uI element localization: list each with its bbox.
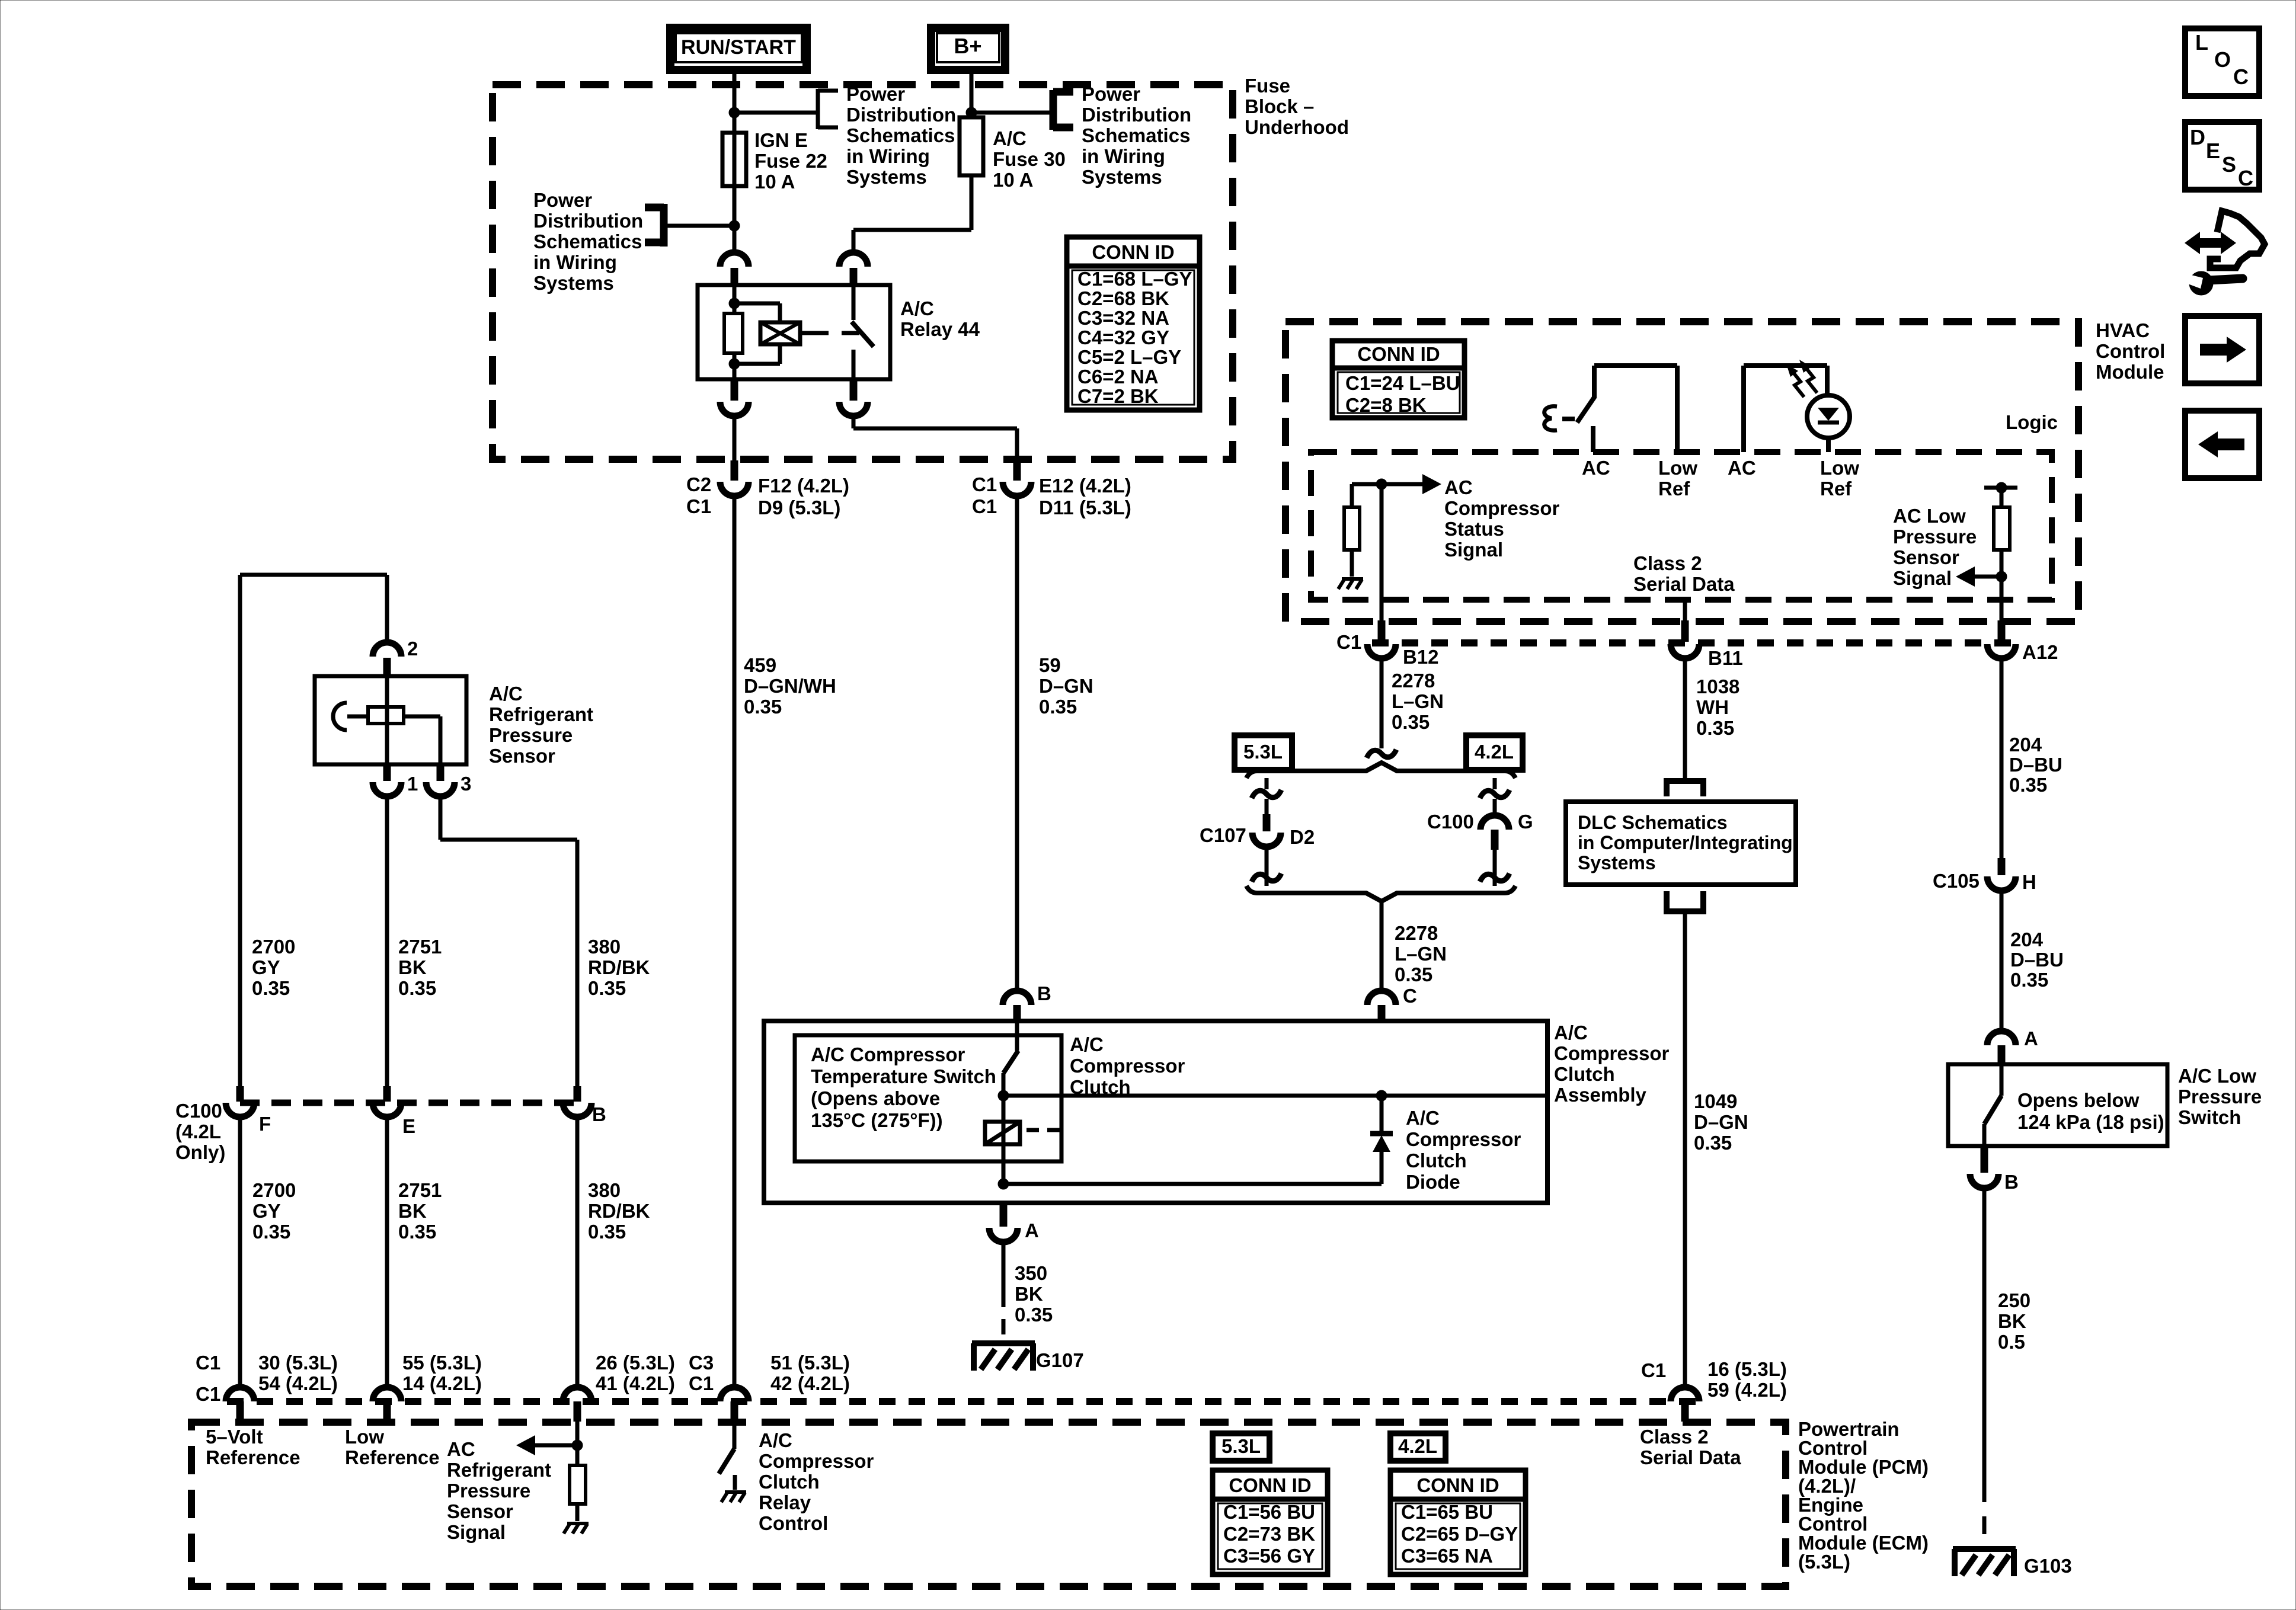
svg-text:2: 2 [407, 638, 418, 660]
svg-text:14 (4.2L): 14 (4.2L) [402, 1372, 482, 1394]
svg-text:C1=56 BUC2=73 BKC3=56 GY: C1=56 BUC2=73 BKC3=56 GY [1223, 1501, 1315, 1567]
svg-text:PowerDistributionSchematicsin: PowerDistributionSchematicsin WiringSyst… [1082, 83, 1191, 188]
svg-text:Opens below124 kPa (18 psi): Opens below124 kPa (18 psi) [2017, 1089, 2164, 1133]
svg-text:CONN ID: CONN ID [1229, 1474, 1311, 1496]
svg-text:D: D [2190, 125, 2205, 149]
svg-text:LowRef: LowRef [1820, 457, 1859, 500]
svg-text:G103: G103 [2024, 1555, 2072, 1577]
svg-text:LowRef: LowRef [1658, 457, 1697, 500]
svg-text:Class 2Serial Data: Class 2Serial Data [1640, 1426, 1741, 1468]
svg-text:AC: AC [1582, 457, 1610, 479]
svg-text:IGN EFuse 2210 A: IGN EFuse 2210 A [754, 129, 827, 193]
svg-text:C105: C105 [1933, 870, 1980, 892]
svg-text:ACCompressorStatusSignal: ACCompressorStatusSignal [1444, 476, 1560, 561]
svg-text:A/CCompressorClutchRelayContro: A/CCompressorClutchRelayControl [759, 1429, 874, 1534]
svg-text:350BK0.35: 350BK0.35 [1015, 1262, 1053, 1326]
svg-text:C: C [2233, 65, 2249, 89]
svg-text:FuseBlock –Underhood: FuseBlock –Underhood [1245, 75, 1349, 138]
svg-text:A/C LowPressureSwitch: A/C LowPressureSwitch [2178, 1065, 2262, 1128]
svg-text:A/CRefrigerantPressureSensor: A/CRefrigerantPressureSensor [489, 683, 593, 767]
svg-text:G107: G107 [1036, 1349, 1084, 1371]
svg-text:30 (5.3L): 30 (5.3L) [258, 1352, 338, 1374]
svg-text:L: L [2195, 30, 2208, 55]
svg-text:C1=65 BUC2=65 D–GYC3=65 NA: C1=65 BUC2=65 D–GYC3=65 NA [1401, 1501, 1518, 1567]
svg-text:E: E [402, 1115, 415, 1137]
svg-text:1: 1 [407, 773, 418, 795]
svg-text:5–VoltReference: 5–VoltReference [206, 1426, 300, 1468]
svg-text:51 (5.3L): 51 (5.3L) [770, 1352, 850, 1374]
svg-text:26 (5.3L): 26 (5.3L) [596, 1352, 675, 1374]
svg-text:PowertrainControlModule (PCM)(: PowertrainControlModule (PCM)(4.2L)/Engi… [1798, 1418, 1929, 1573]
svg-text:CONN ID: CONN ID [1357, 343, 1440, 365]
svg-text:D9 (5.3L): D9 (5.3L) [758, 497, 840, 518]
svg-text:LowReference: LowReference [345, 1426, 440, 1468]
svg-text:C1: C1 [1336, 631, 1361, 653]
svg-text:A/C CompressorTemperature Swit: A/C CompressorTemperature Switch(Opens a… [811, 1044, 996, 1131]
svg-text:55 (5.3L): 55 (5.3L) [402, 1352, 482, 1374]
svg-text:5.3L: 5.3L [1243, 741, 1283, 763]
svg-text:3: 3 [461, 773, 471, 795]
svg-text:C100(4.2LOnly): C100(4.2LOnly) [175, 1100, 225, 1163]
svg-text:2751BK0.35: 2751BK0.35 [398, 936, 442, 999]
svg-text:204D–BU0.35: 204D–BU0.35 [2010, 929, 2064, 991]
svg-text:AC: AC [1728, 457, 1756, 479]
svg-text:2278L–GN0.35: 2278L–GN0.35 [1392, 670, 1444, 733]
svg-text:A: A [1025, 1219, 1039, 1241]
svg-text:41 (4.2L): 41 (4.2L) [596, 1372, 675, 1394]
svg-text:O: O [2214, 47, 2231, 72]
svg-text:RUN/START: RUN/START [681, 36, 796, 59]
svg-text:2278L–GN0.35: 2278L–GN0.35 [1395, 922, 1447, 985]
svg-text:54 (4.2L): 54 (4.2L) [258, 1372, 338, 1394]
svg-text:C1: C1 [689, 1372, 714, 1394]
svg-text:Logic: Logic [2006, 411, 2058, 433]
svg-text:C1C1: C1C1 [972, 473, 997, 517]
svg-text:380RD/BK0.35: 380RD/BK0.35 [588, 936, 650, 999]
svg-text:1038WH0.35: 1038WH0.35 [1696, 676, 1739, 739]
svg-text:HVACControlModule: HVACControlModule [2096, 319, 2165, 383]
svg-text:A/CFuse 3010 A: A/CFuse 3010 A [993, 127, 1066, 191]
svg-text:59 (4.2L): 59 (4.2L) [1707, 1379, 1787, 1401]
svg-text:E12 (4.2L): E12 (4.2L) [1039, 475, 1131, 497]
svg-text:C1=68 L–GYC2=68 BKC3=32 NAC4=3: C1=68 L–GYC2=68 BKC3=32 NAC4=32 GYC5=2 L… [1077, 268, 1192, 407]
svg-text:16 (5.3L): 16 (5.3L) [1707, 1358, 1787, 1380]
svg-text:C1: C1 [196, 1383, 220, 1405]
svg-text:B: B [592, 1103, 606, 1125]
svg-text:PowerDistributionSchematicsin: PowerDistributionSchematicsin WiringSyst… [846, 83, 956, 188]
svg-text:A/CCompressorClutchDiode: A/CCompressorClutchDiode [1406, 1107, 1521, 1193]
svg-text:250BK0.5: 250BK0.5 [1998, 1289, 2030, 1353]
svg-text:B11: B11 [1708, 647, 1743, 669]
svg-text:DLC Schematicsin Computer/Inte: DLC Schematicsin Computer/IntegratingSys… [1578, 812, 1793, 873]
svg-text:B+: B+ [954, 34, 981, 58]
svg-text:C3: C3 [689, 1352, 714, 1374]
svg-text:C2C1: C2C1 [686, 473, 711, 517]
svg-text:E: E [2206, 139, 2220, 163]
svg-text:CONN ID: CONN ID [1092, 241, 1174, 263]
svg-text:D11 (5.3L): D11 (5.3L) [1039, 497, 1131, 518]
svg-text:CONN ID: CONN ID [1416, 1474, 1499, 1496]
svg-text:A: A [2024, 1028, 2038, 1049]
svg-text:C107: C107 [1200, 824, 1246, 846]
svg-text:2751BK0.35: 2751BK0.35 [398, 1179, 442, 1243]
svg-text:C: C [2238, 166, 2253, 190]
svg-text:A/CRelay 44: A/CRelay 44 [900, 297, 980, 340]
svg-text:S: S [2222, 152, 2236, 177]
svg-text:B12: B12 [1403, 646, 1439, 668]
svg-text:204D–BU0.35: 204D–BU0.35 [2009, 734, 2062, 796]
svg-text:B: B [1037, 982, 1051, 1004]
svg-text:G: G [1518, 811, 1533, 833]
svg-text:4.2L: 4.2L [1398, 1435, 1437, 1457]
svg-text:C1=24 L–BUC2=8 BK: C1=24 L–BUC2=8 BK [1345, 372, 1460, 416]
svg-text:A12: A12 [2022, 641, 2058, 663]
svg-text:C1: C1 [196, 1352, 220, 1374]
svg-text:PowerDistributionSchematicsin: PowerDistributionSchematicsin WiringSyst… [533, 189, 643, 294]
svg-text:459D–GN/WH0.35: 459D–GN/WH0.35 [744, 654, 836, 718]
svg-text:1049D–GN0.35: 1049D–GN0.35 [1694, 1090, 1748, 1154]
svg-text:C1: C1 [1641, 1359, 1666, 1381]
svg-text:D2: D2 [1290, 826, 1315, 848]
svg-text:C100: C100 [1427, 811, 1474, 833]
svg-text:ACRefrigerantPressureSensorSig: ACRefrigerantPressureSensorSignal [447, 1438, 551, 1543]
svg-text:2700GY0.35: 2700GY0.35 [252, 936, 295, 999]
svg-text:B: B [2004, 1171, 2019, 1193]
svg-text:Class 2Serial Data: Class 2Serial Data [1633, 552, 1735, 595]
svg-text:4.2L: 4.2L [1475, 741, 1514, 763]
svg-text:A/CCompressorClutch: A/CCompressorClutch [1070, 1033, 1185, 1098]
svg-text:F: F [259, 1113, 271, 1135]
svg-text:5.3L: 5.3L [1221, 1435, 1261, 1457]
svg-text:F12 (4.2L): F12 (4.2L) [758, 475, 849, 497]
svg-text:42 (4.2L): 42 (4.2L) [770, 1372, 850, 1394]
svg-text:59D–GN0.35: 59D–GN0.35 [1039, 654, 1093, 718]
svg-text:2700GY0.35: 2700GY0.35 [252, 1179, 296, 1243]
svg-text:H: H [2022, 871, 2036, 893]
svg-text:380RD/BK0.35: 380RD/BK0.35 [588, 1179, 650, 1243]
svg-text:A/CCompressorClutchAssembly: A/CCompressorClutchAssembly [1554, 1022, 1670, 1106]
svg-text:C: C [1403, 985, 1417, 1007]
